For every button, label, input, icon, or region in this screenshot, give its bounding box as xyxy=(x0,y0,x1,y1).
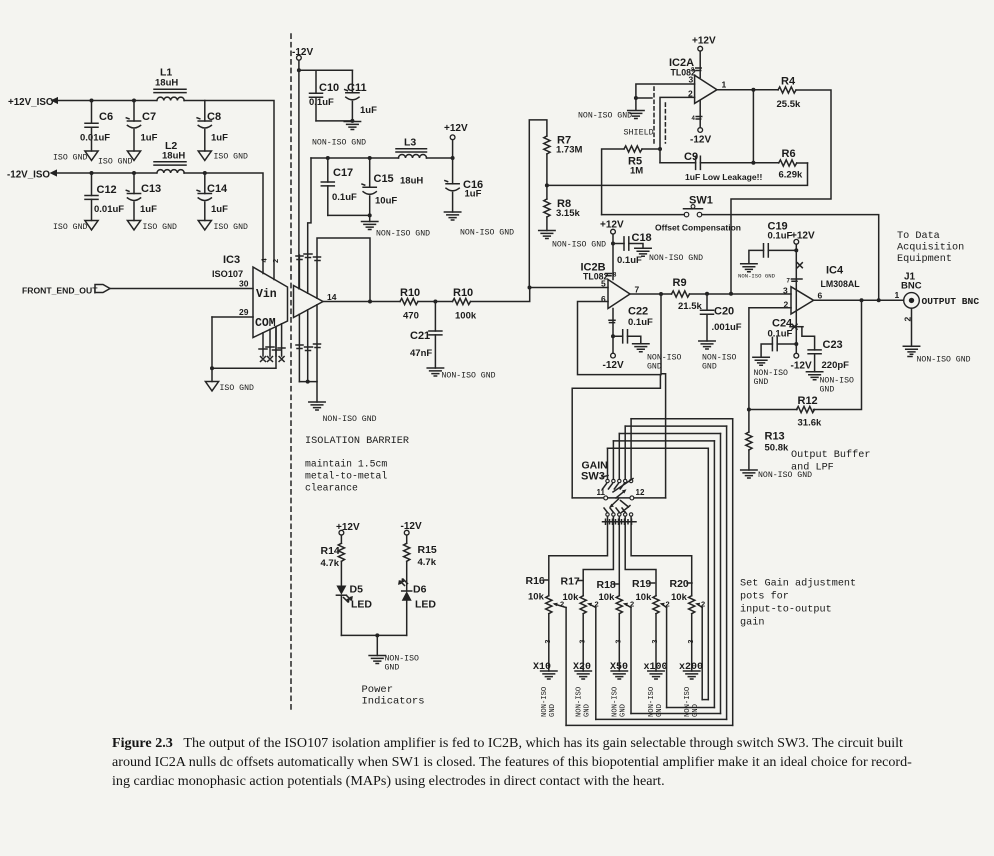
op-amp IC3 output triangle xyxy=(294,286,324,318)
svg-text:SHIELD: SHIELD xyxy=(624,128,654,138)
svg-text:IC4: IC4 xyxy=(826,265,844,277)
svg-text:10uF: 10uF xyxy=(375,196,397,207)
wire SW3 bottom pin1 to R16 xyxy=(549,516,608,596)
wire COM-return pin xyxy=(275,327,277,356)
wire pin2 loop xyxy=(749,308,791,432)
svg-text:10k: 10k xyxy=(671,592,688,603)
wire pin2 left and down xyxy=(660,97,695,162)
svg-text:4.7k: 4.7k xyxy=(418,557,437,568)
wire gain bus bottom rails xyxy=(566,700,733,726)
svg-text:BNC: BNC xyxy=(901,281,922,292)
SW3 bottom contacts xyxy=(606,513,633,516)
svg-text:50.8k: 50.8k xyxy=(765,443,789,454)
pin 4 tick xyxy=(692,116,702,122)
svg-text:R10: R10 xyxy=(400,287,420,299)
node +12V terminal xyxy=(444,123,468,140)
ground NON-ISO GND (C21) xyxy=(427,368,495,381)
pin 4 tick xyxy=(609,320,615,322)
wire SW3 bottom pin5 to R20 xyxy=(631,516,692,596)
svg-text:2: 2 xyxy=(903,317,913,322)
svg-text:29: 29 xyxy=(239,307,249,317)
svg-text:NON-ISO: NON-ISO xyxy=(648,687,656,717)
wire C17/C15 bottom rail xyxy=(328,214,370,216)
svg-text:C18: C18 xyxy=(632,232,652,244)
svg-text:R16: R16 xyxy=(526,575,545,587)
junction xyxy=(306,380,310,384)
node -12V terminal xyxy=(292,47,313,60)
SECTION: R10 chain xyxy=(323,287,530,381)
node FRONT_END_OUT xyxy=(22,285,110,296)
wire SW3 bottom pin4 to R19 xyxy=(625,516,656,596)
svg-text:11: 11 xyxy=(597,488,606,497)
capacitor C14 xyxy=(197,173,228,221)
pin number smudge row xyxy=(603,519,637,524)
svg-text:GND: GND xyxy=(656,704,664,717)
potentiometer R17 xyxy=(561,576,599,720)
junction xyxy=(634,96,638,100)
svg-text:-12V: -12V xyxy=(401,521,422,532)
svg-text:NON-ISO: NON-ISO xyxy=(684,687,692,717)
ground NON-ISO GND (C16) xyxy=(444,212,514,238)
svg-text:6: 6 xyxy=(818,291,823,301)
junction xyxy=(794,342,798,346)
wire SW3 contact5 up xyxy=(630,419,632,480)
svg-text:3: 3 xyxy=(579,640,586,644)
svg-text:0.1uF: 0.1uF xyxy=(309,97,334,108)
wire link to gain return rail xyxy=(572,375,660,498)
wire to R14 xyxy=(340,535,342,543)
wire pin11 row xyxy=(572,497,665,499)
svg-text:COM: COM xyxy=(255,317,276,330)
ground NON-ISO GND (R16) xyxy=(541,671,557,717)
capacitor C6 xyxy=(80,101,113,152)
junction xyxy=(350,119,354,123)
junction xyxy=(132,99,136,103)
svg-text:C12: C12 xyxy=(97,184,117,196)
svg-text:C10: C10 xyxy=(319,82,339,94)
node +12V (IC4) xyxy=(791,231,815,245)
wire BNC shell to gnd xyxy=(911,308,913,346)
wire R14 to D5 xyxy=(340,561,342,585)
wire to R15 xyxy=(406,535,408,543)
node +12V (IC2A) xyxy=(692,36,716,52)
wire R13 to gnd xyxy=(748,450,750,470)
svg-text:25.5k: 25.5k xyxy=(777,99,801,110)
svg-text:Set Gain adjustment: Set Gain adjustment xyxy=(740,578,856,590)
svg-text:LM308AL: LM308AL xyxy=(821,279,861,289)
svg-text:47nF: 47nF xyxy=(410,348,432,359)
svg-text:0.1uF: 0.1uF xyxy=(628,317,653,328)
svg-text:NON-ISO GND: NON-ISO GND xyxy=(323,415,377,424)
svg-text:R13: R13 xyxy=(765,431,785,443)
capacitor C8 xyxy=(197,101,228,152)
junction xyxy=(611,334,615,338)
junction xyxy=(729,292,733,296)
wire IC4 output xyxy=(814,299,904,301)
svg-text:NON-ISO: NON-ISO xyxy=(647,354,681,363)
ground NON-ISO GND (R19) xyxy=(648,671,664,717)
junction xyxy=(297,68,301,72)
svg-text:and LPF: and LPF xyxy=(791,462,834,474)
wire R15 to D6 xyxy=(406,561,408,591)
pin ticks top of triangle xyxy=(296,254,321,261)
svg-text:ISO GND: ISO GND xyxy=(214,153,248,162)
ground NON-ISO GND (BNC) xyxy=(903,346,970,364)
svg-text:1.73M: 1.73M xyxy=(556,145,582,156)
junction xyxy=(132,171,136,175)
svg-text:Power: Power xyxy=(362,684,394,696)
svg-text:C13: C13 xyxy=(141,183,161,195)
resistor R5 xyxy=(624,146,643,177)
ground ISO GND (C14) xyxy=(198,221,248,233)
svg-text:NON-ISO GND: NON-ISO GND xyxy=(649,254,703,263)
svg-text:7: 7 xyxy=(787,279,791,285)
svg-text:3: 3 xyxy=(783,286,788,296)
wire offset rail xyxy=(547,163,808,185)
svg-text:LED: LED xyxy=(415,599,436,611)
wire SW3 contact4 up xyxy=(624,426,626,479)
svg-text:4: 4 xyxy=(260,258,269,263)
svg-text:220pF: 220pF xyxy=(822,360,850,371)
svg-text:Indicators: Indicators xyxy=(362,696,425,708)
svg-text:gain: gain xyxy=(740,617,764,629)
SW3 rotor arrow xyxy=(616,489,627,498)
svg-text:1uF: 1uF xyxy=(140,204,157,215)
shield dashed lines xyxy=(653,87,655,143)
junction xyxy=(659,292,663,296)
junction xyxy=(433,300,437,304)
junction xyxy=(368,213,372,217)
svg-text:C6: C6 xyxy=(99,111,113,123)
junction xyxy=(545,183,549,187)
svg-text:GND: GND xyxy=(549,704,557,717)
inductor L1 xyxy=(154,67,186,101)
text Power Indicators xyxy=(362,684,425,708)
isolation barrier dashed line xyxy=(290,34,292,712)
wire -12V down to IC3 xyxy=(298,60,300,289)
svg-text:10k: 10k xyxy=(599,592,616,603)
ground NON-ISO GND (C20) xyxy=(699,341,737,372)
svg-text:3: 3 xyxy=(688,640,695,644)
svg-text:30: 30 xyxy=(239,279,249,289)
svg-text:31.6k: 31.6k xyxy=(798,418,822,429)
resistor R13 xyxy=(746,431,789,454)
svg-text:FRONT_END_OUT: FRONT_END_OUT xyxy=(22,286,98,296)
ground NON-ISO GND (C22) xyxy=(633,344,682,372)
svg-text:C23: C23 xyxy=(823,339,843,351)
svg-text:0.1uF: 0.1uF xyxy=(617,255,642,266)
svg-text:NON-ISO: NON-ISO xyxy=(385,655,419,664)
SW3 top rotor strokes xyxy=(603,479,634,493)
wire D5 to rail xyxy=(340,595,342,635)
junction xyxy=(611,242,615,246)
text Set Gain adjustment pots xyxy=(740,578,856,629)
diode D5 LED xyxy=(336,584,372,611)
SECTION: IC3 isolation amp xyxy=(22,34,409,712)
svg-text:D5: D5 xyxy=(350,584,364,596)
wire C10/C11 bottom rail xyxy=(316,120,352,122)
resistor R8 xyxy=(544,198,581,219)
potentiometer R20 xyxy=(670,578,706,700)
svg-text:GND: GND xyxy=(820,386,835,395)
ground NON-ISO GND (R13) xyxy=(741,470,812,480)
wire SW3 contact3 up xyxy=(618,434,620,480)
svg-text:LED: LED xyxy=(351,599,372,611)
svg-text:+12V_ISO: +12V_ISO xyxy=(8,97,54,108)
wire +12V to rail xyxy=(452,140,454,184)
wire IC3 output xyxy=(323,301,400,303)
svg-text:pots for: pots for xyxy=(740,591,789,603)
junction xyxy=(451,156,455,160)
svg-text:R4: R4 xyxy=(781,76,796,88)
svg-text:14: 14 xyxy=(327,292,337,302)
svg-text:ISO GND: ISO GND xyxy=(98,158,132,167)
svg-text:ISOLATION BARRIER: ISOLATION BARRIER xyxy=(305,436,409,447)
capacitor C11 xyxy=(345,70,377,121)
node +12V_ISO xyxy=(8,97,156,108)
junction xyxy=(658,147,662,151)
svg-text:ISO GND: ISO GND xyxy=(53,223,87,232)
capacitor C16 xyxy=(445,179,483,212)
svg-text:ISO GND: ISO GND xyxy=(220,384,254,393)
SECTION: iso supply filters xyxy=(7,67,274,280)
wire D6 to rail xyxy=(406,601,408,636)
node -12V (IC2B) xyxy=(603,353,624,371)
svg-text:ISO107: ISO107 xyxy=(212,269,243,279)
svg-text:NON-ISO GND: NON-ISO GND xyxy=(376,230,430,239)
capacitor C18 xyxy=(613,232,652,266)
resistor R4 xyxy=(777,76,801,111)
wire pin29 xyxy=(212,316,253,318)
svg-text:12: 12 xyxy=(636,488,645,497)
inductor L3 xyxy=(396,137,453,187)
node -12V (IC4) xyxy=(791,353,812,371)
wire output down to SW3 xyxy=(661,294,666,498)
wire SW3 contact1 up xyxy=(607,448,609,479)
ground NON-ISO GND (C15) xyxy=(362,215,431,238)
svg-text:2: 2 xyxy=(271,259,280,263)
svg-text:470: 470 xyxy=(403,311,419,322)
wire SW3 contact2 up xyxy=(612,441,614,479)
svg-text:0.01uF: 0.01uF xyxy=(80,133,110,144)
svg-text:maintain 1.5cm: maintain 1.5cm xyxy=(305,459,387,470)
resistor R12 xyxy=(797,395,822,429)
capacitor C7 xyxy=(126,101,157,152)
wire +12V rail through IC4 xyxy=(795,244,797,353)
capacitor C19 xyxy=(749,221,796,264)
junction xyxy=(375,633,379,637)
svg-text:input-to-output: input-to-output xyxy=(740,604,832,616)
svg-text:-12V: -12V xyxy=(690,135,711,146)
capacitor C15 xyxy=(362,158,397,215)
svg-text:GND: GND xyxy=(620,704,628,717)
wire IC2B output xyxy=(630,293,672,295)
wire SW1 right to output sense xyxy=(702,215,879,301)
ground NON-ISO GND (R8) xyxy=(539,231,606,250)
junction xyxy=(528,286,532,290)
svg-text:clearance: clearance xyxy=(305,483,358,494)
svg-text:+12V: +12V xyxy=(692,36,716,47)
svg-text:10k: 10k xyxy=(636,592,653,603)
op-amp U IC3 ISO107 input stage xyxy=(212,254,288,338)
svg-text:C17: C17 xyxy=(333,167,353,179)
svg-text:NON-ISO: NON-ISO xyxy=(702,354,736,363)
op-amp IC2B TL082 xyxy=(581,262,631,309)
svg-text:10k: 10k xyxy=(528,592,545,603)
capacitor C17 xyxy=(321,158,357,215)
SW3 top contacts xyxy=(606,479,633,482)
wire R6 right to loop xyxy=(797,162,808,164)
svg-text:R20: R20 xyxy=(670,578,689,590)
wire pin3 to gnd xyxy=(636,84,695,110)
node -12V (power ind) xyxy=(401,521,422,535)
svg-text:3: 3 xyxy=(689,75,694,85)
svg-text:R10: R10 xyxy=(453,287,473,299)
SECTION: power indicators xyxy=(321,521,437,708)
pin 12 xyxy=(630,488,645,500)
ground ISO GND (C12) xyxy=(53,221,98,233)
junction xyxy=(368,300,372,304)
svg-text:3: 3 xyxy=(545,640,552,644)
wire pin (triangle top 2) to C17 rail xyxy=(308,158,311,293)
svg-text:Acquisition: Acquisition xyxy=(897,242,964,254)
svg-text:-12V: -12V xyxy=(292,47,313,58)
wire R9 to IC4 xyxy=(690,293,792,295)
text Output Buffer and LPF xyxy=(791,449,870,474)
svg-text:4.7k: 4.7k xyxy=(321,558,340,569)
svg-text:3: 3 xyxy=(652,640,659,644)
text To Data Acquisition Equipment xyxy=(897,231,964,265)
SECTION: non-iso supply filters xyxy=(292,47,514,289)
ground ISO GND (C6) xyxy=(53,151,98,163)
capacitor C9 xyxy=(660,151,779,182)
svg-text:C22: C22 xyxy=(628,306,648,318)
wire R12 loop xyxy=(749,300,862,409)
wire C10/C11 top rail xyxy=(299,69,353,71)
svg-text:7: 7 xyxy=(635,285,640,295)
ground ISO GND (COM) xyxy=(205,368,254,393)
svg-text:8: 8 xyxy=(613,273,617,279)
svg-text:C7: C7 xyxy=(142,111,156,123)
op-amp IC4 LM308AL xyxy=(791,265,860,315)
ground NON-ISO GND (R20) xyxy=(684,671,700,717)
x mark pin8 xyxy=(797,263,802,268)
svg-text:GND: GND xyxy=(385,664,400,673)
SW3 lower rotor arrow xyxy=(609,499,618,508)
svg-text:Vin: Vin xyxy=(256,288,277,301)
svg-text:Output Buffer: Output Buffer xyxy=(791,449,870,461)
ground NON-ISO GND (C10/C11) xyxy=(312,122,366,148)
resistor R14 xyxy=(321,543,345,569)
SW3 label tie line xyxy=(602,476,608,478)
junction xyxy=(90,99,94,103)
wire output to C9 rail xyxy=(752,90,754,163)
capacitor C24 xyxy=(761,318,796,358)
svg-text:GND: GND xyxy=(692,704,700,717)
svg-text:0.1uF: 0.1uF xyxy=(768,231,793,242)
svg-text:C20: C20 xyxy=(714,306,734,318)
svg-text:18uH: 18uH xyxy=(400,176,423,187)
svg-text:R15: R15 xyxy=(418,544,437,556)
svg-text:+12V: +12V xyxy=(444,123,468,134)
ground NON-ISO GND (C24) xyxy=(753,357,788,387)
wire shield stub xyxy=(636,97,652,99)
wire bottom rail xyxy=(299,382,317,402)
capacitor C22 xyxy=(613,306,653,344)
svg-text:6: 6 xyxy=(601,294,606,304)
wire R4 loop to IC4 input xyxy=(731,90,831,294)
junction xyxy=(90,171,94,175)
svg-text:Offset Compensation: Offset Compensation xyxy=(655,223,741,233)
svg-text:3: 3 xyxy=(616,640,623,644)
wire pin (triangle top 1) to -12V line xyxy=(298,255,300,289)
junction xyxy=(368,156,372,160)
wire -12V_ISO rail right xyxy=(184,173,263,274)
svg-text:ISO GND: ISO GND xyxy=(143,223,177,232)
svg-text:21.5k: 21.5k xyxy=(678,301,702,312)
diode D6 LED xyxy=(398,578,436,611)
ground NON-ISO GND (R18) xyxy=(611,671,627,717)
svg-text:1uF: 1uF xyxy=(211,204,228,215)
svg-text:1uF: 1uF xyxy=(360,105,377,116)
pin 11 xyxy=(597,488,608,500)
svg-text:-12V: -12V xyxy=(603,360,624,371)
node +12V (power ind) xyxy=(336,522,360,535)
potentiometer R19 xyxy=(632,578,670,708)
SECTION: IC4 output xyxy=(738,221,979,481)
svg-text:NON-ISO GND: NON-ISO GND xyxy=(738,273,776,280)
wire COM to ISO GND xyxy=(212,317,276,368)
resistor R9 xyxy=(672,277,703,312)
resistor R7 xyxy=(544,135,583,156)
wire pin4 to -12V xyxy=(612,309,614,354)
junction xyxy=(877,298,881,302)
svg-text:1uF: 1uF xyxy=(465,189,482,200)
svg-text:NON-ISO: NON-ISO xyxy=(541,687,549,717)
svg-text:To Data: To Data xyxy=(897,231,940,242)
wire bottom rail xyxy=(341,634,406,636)
svg-text:GND: GND xyxy=(702,363,717,372)
svg-text:Equipment: Equipment xyxy=(897,253,952,265)
svg-text:6.29k: 6.29k xyxy=(779,170,803,181)
SW3 lower rotor strokes xyxy=(604,501,630,513)
svg-text:18uH: 18uH xyxy=(162,151,185,162)
svg-text:GND: GND xyxy=(647,363,662,372)
svg-text:1: 1 xyxy=(722,80,727,90)
wire +12V to pin8 xyxy=(612,234,614,279)
pin ticks bottom of triangle xyxy=(296,344,321,351)
wire divider riser to R7 xyxy=(529,120,547,288)
ground NON-ISO GND (C23) xyxy=(806,372,854,395)
svg-text:R9: R9 xyxy=(673,277,687,289)
svg-text:-12V: -12V xyxy=(791,361,812,372)
svg-text:1uF: 1uF xyxy=(211,133,228,144)
svg-text:ISO GND: ISO GND xyxy=(53,154,87,163)
wire C17/C15 top rail xyxy=(311,157,399,159)
svg-text:NON-ISO GND: NON-ISO GND xyxy=(578,112,632,121)
SECTION: SW3 and pots xyxy=(526,419,857,726)
svg-text:C21: C21 xyxy=(410,330,430,342)
ground ISO GND (C13) xyxy=(127,221,177,233)
svg-text:ISO GND: ISO GND xyxy=(214,223,248,232)
ground NON-ISO GND (IC3) xyxy=(309,402,377,424)
svg-text:1: 1 xyxy=(895,290,900,300)
resistor R6 xyxy=(779,148,803,181)
svg-text:NON-ISO: NON-ISO xyxy=(575,687,583,717)
junction xyxy=(203,171,207,175)
SECTION: IC2B xyxy=(530,220,791,498)
svg-text:0.1uF: 0.1uF xyxy=(768,329,793,340)
